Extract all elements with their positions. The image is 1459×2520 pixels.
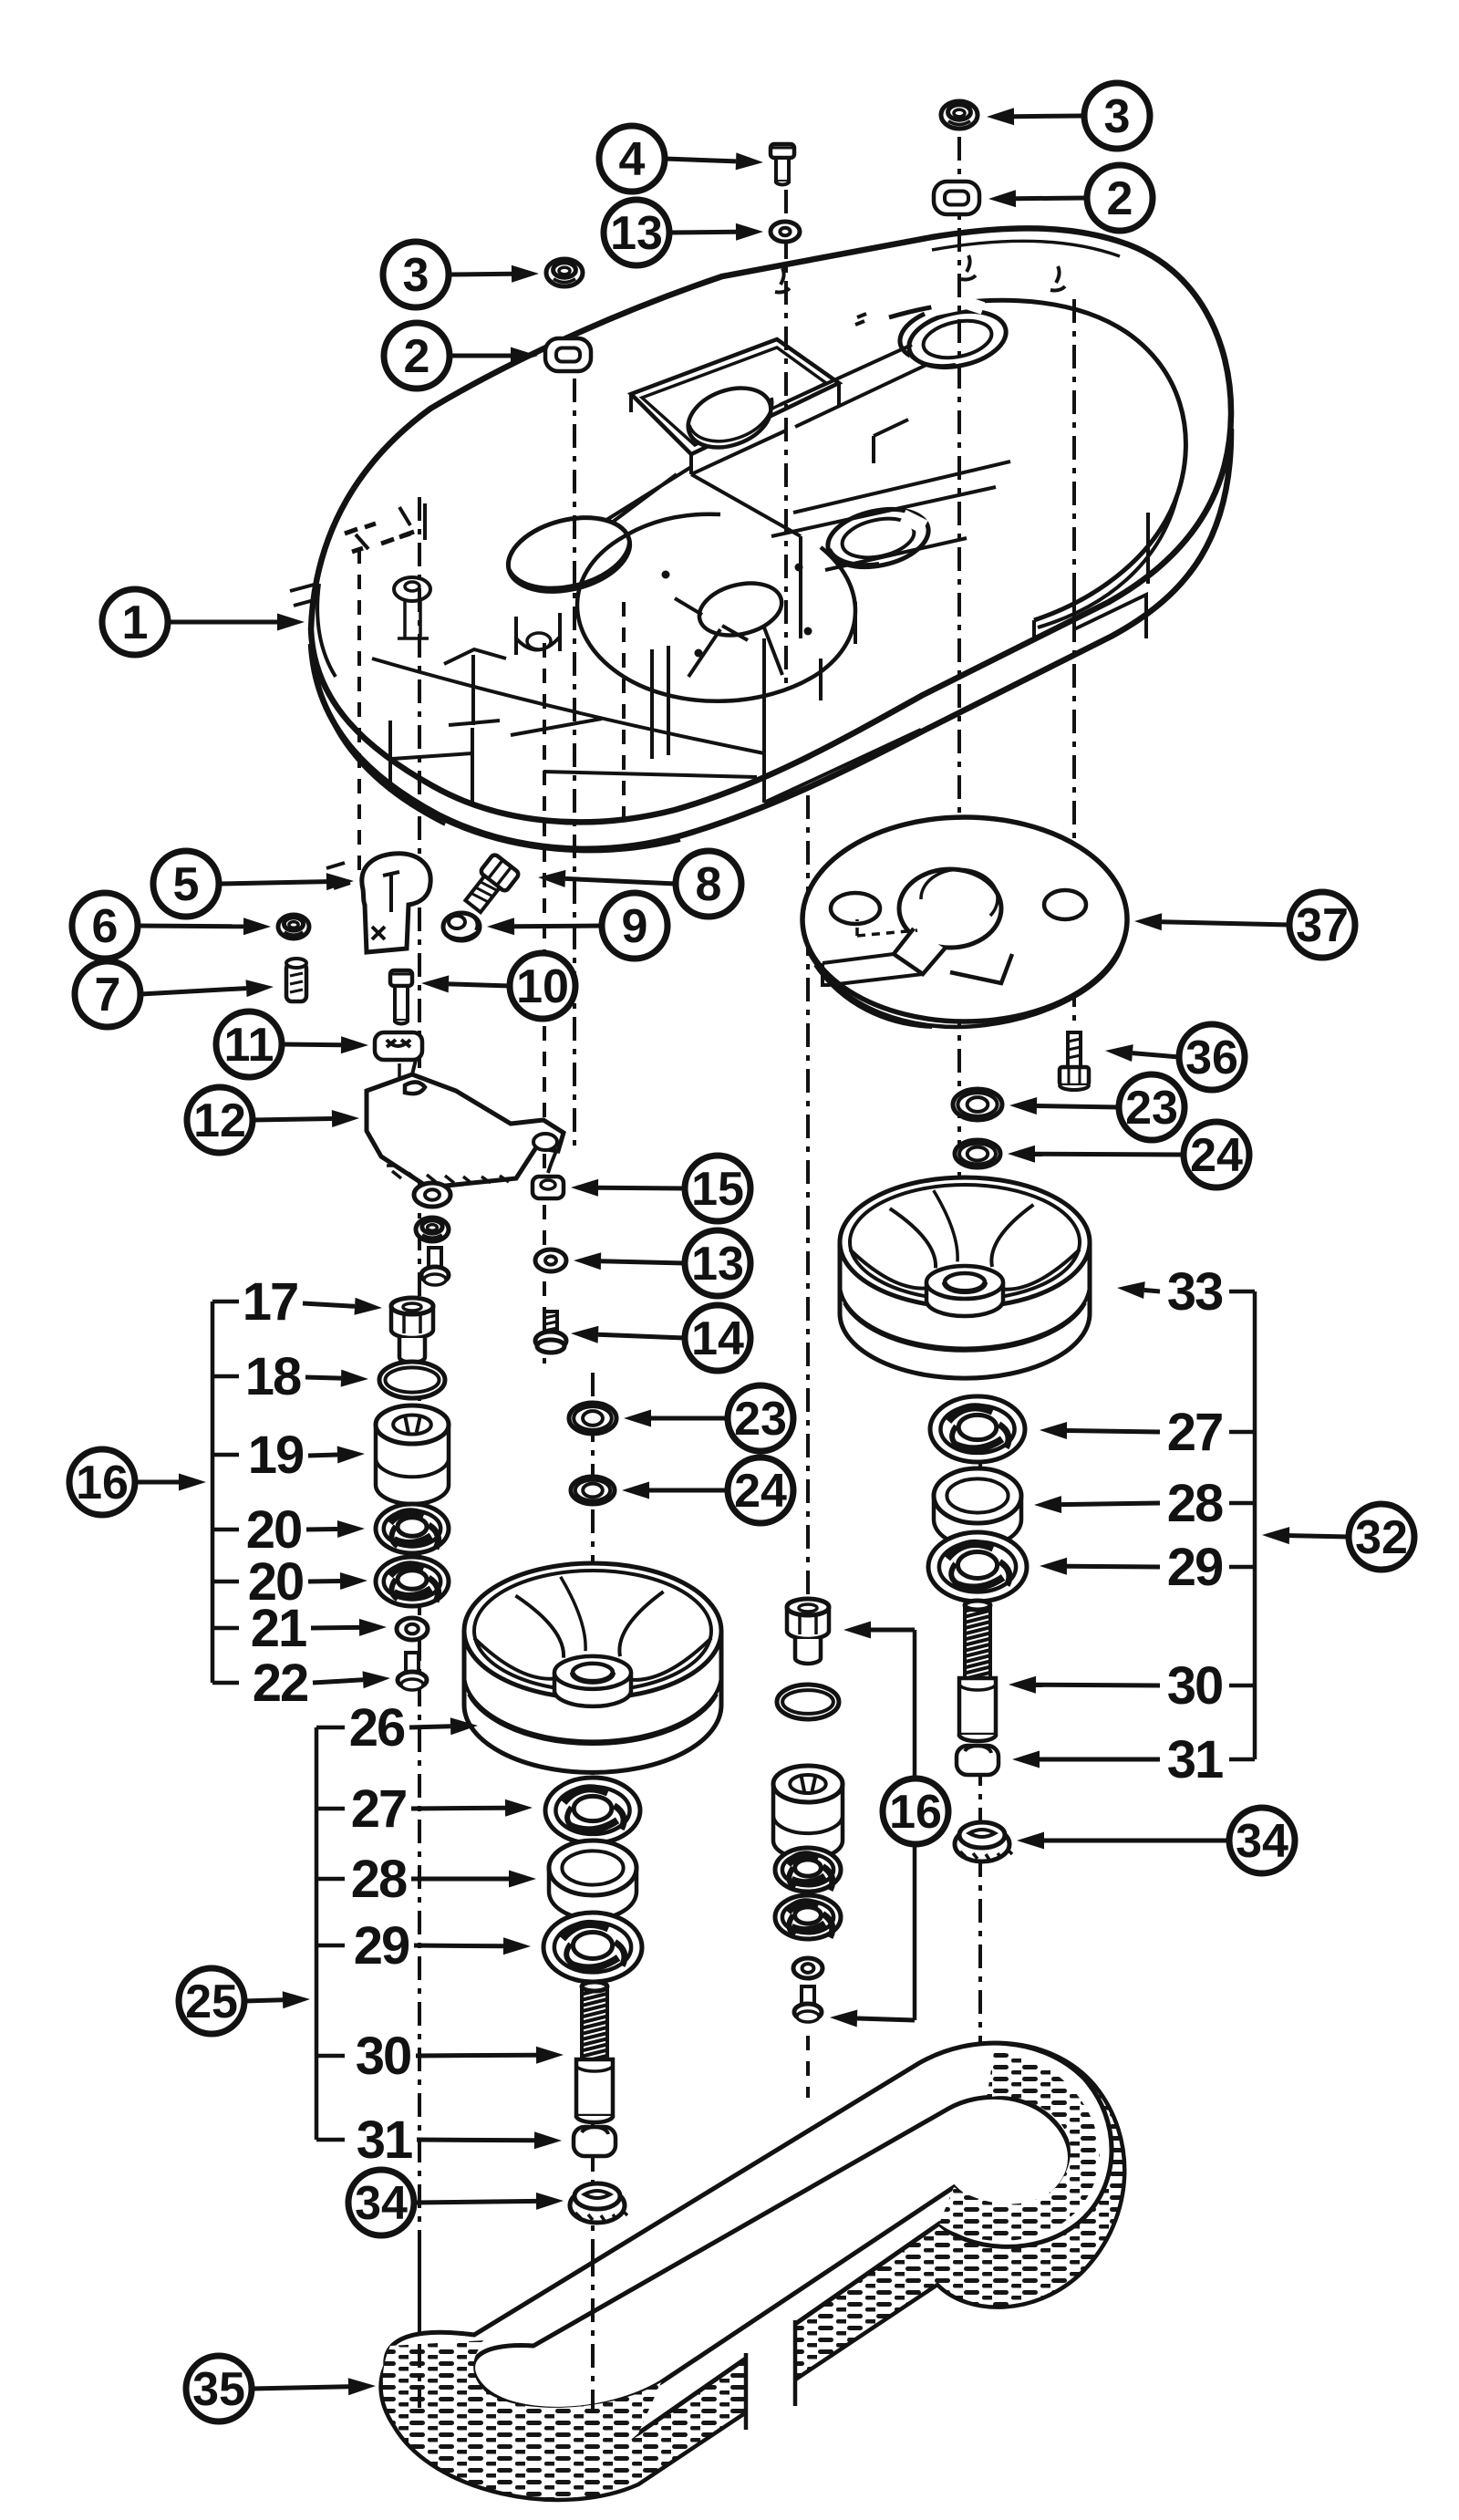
screw centre-right [794, 1986, 822, 2022]
idler pulley (part 26) [464, 1563, 721, 1772]
arrow to washer 24 centre [622, 1482, 728, 1499]
bracket stub [1229, 1501, 1255, 1506]
snap ring (part 18) [379, 1362, 445, 1398]
centreline deck bolt 15/13/14 [543, 643, 546, 1364]
arrow to bearing 27 centre [411, 1799, 533, 1817]
bearing (part 29) right [928, 1532, 1027, 1602]
bearing (part 29) centre [543, 1913, 642, 1982]
svg-text:9: 9 [622, 900, 648, 953]
svg-text:24: 24 [1190, 1129, 1243, 1182]
svg-text:23: 23 [734, 1393, 787, 1446]
svg-text:2: 2 [404, 330, 430, 383]
arrow to locknut 34 centre [414, 2193, 564, 2210]
bearing (part 20) upper [376, 1504, 449, 1553]
flanged locknut (part 34) right [955, 1822, 1012, 1861]
spacer centre-right [773, 1766, 843, 1859]
bolt (part 8) [460, 854, 520, 917]
svg-text:3: 3 [1104, 90, 1131, 143]
svg-text:29: 29 [1167, 1538, 1223, 1597]
arrow to race 28 centre [411, 1871, 536, 1888]
callout 12 [187, 1087, 253, 1153]
arrow to nut 3 left [449, 265, 539, 283]
lock washer (part 2) right [934, 181, 979, 214]
svg-text:16: 16 [889, 1786, 942, 1839]
callout 3 [1084, 83, 1150, 149]
callout 24 [1184, 1122, 1249, 1187]
arrow to plate 37 [1134, 913, 1289, 930]
washer under arm [414, 1183, 450, 1207]
callout 13 [604, 200, 669, 265]
svg-text:31: 31 [357, 2110, 412, 2170]
callout 10 [510, 953, 575, 1019]
arrow to shaft 30 centre [416, 2047, 564, 2064]
svg-text:36: 36 [1185, 1032, 1238, 1084]
svg-text:10: 10 [516, 960, 569, 1013]
svg-text:16: 16 [76, 1457, 129, 1509]
arrow to bearing 20 upper [306, 1520, 365, 1538]
bracket stub [1229, 1684, 1255, 1688]
bracket stub [212, 1528, 239, 1532]
bracket stub [316, 1807, 345, 1811]
nut (part 3) left [546, 259, 583, 286]
idler plate (part 37) [802, 817, 1127, 1027]
arrow to bolt 8 [538, 870, 676, 887]
svg-text:32: 32 [1355, 1511, 1408, 1564]
snap ring centre-right [777, 1685, 839, 1719]
callout 23 [728, 1385, 793, 1451]
centreline right spindle [957, 137, 961, 1295]
bracket stub [1229, 1565, 1255, 1570]
centreline idler spindle [418, 497, 421, 2408]
svg-text:17: 17 [243, 1272, 298, 1332]
arrow to nut 6 [138, 918, 271, 935]
bracket stub [212, 1453, 239, 1457]
arrow to nut 15 [571, 1179, 685, 1197]
lug nut (part 9) [443, 913, 480, 940]
svg-text:30: 30 [356, 2027, 411, 2086]
arrow to ring 18 [305, 1370, 368, 1387]
bearing race (part 28) centre [549, 1841, 636, 1919]
housing skirt window [390, 719, 602, 806]
bracket stub [316, 2054, 345, 2059]
group 16 leader vertical [913, 1630, 917, 2020]
bolt 10 axis [398, 1063, 401, 1164]
bracket group 32 vertical [1253, 1291, 1257, 1759]
wing nut (part 11) [375, 1032, 422, 1060]
housing right plateau [771, 300, 1185, 638]
callout 36 [1179, 1024, 1245, 1090]
nut (part 31) right [957, 1746, 999, 1775]
centreline left spindle [573, 379, 576, 1147]
washer (part 21) [397, 1618, 428, 1640]
arrow to washer 24 right [1008, 1146, 1184, 1163]
callout 25 [179, 1968, 244, 2034]
screw (part 36) [1060, 1032, 1089, 1090]
arrow to nut 31 centre [417, 2131, 562, 2149]
bracket stub [316, 1726, 345, 1730]
callout 11 [216, 1011, 282, 1077]
arrow to bearing 29 centre [414, 1937, 531, 1955]
bearing (part 20) lower [376, 1557, 449, 1606]
centreline bolt 4 [784, 190, 788, 691]
washer (part 13) centre [535, 1250, 566, 1271]
centreline right spindle lower [978, 1397, 982, 2182]
washer (part 23) right [953, 1089, 1002, 1120]
callout 5 [153, 851, 219, 917]
washer (part 24) centre [571, 1477, 615, 1504]
bracket stub [316, 1944, 345, 1948]
svg-text:28: 28 [351, 1850, 407, 1909]
housing left spindle opening [501, 506, 637, 604]
nut (part 6) [278, 915, 309, 939]
housing hidden line 2 [622, 602, 626, 825]
arrow to washer 2 left [450, 347, 538, 365]
svg-text:8: 8 [696, 858, 722, 911]
idler arm (part 12) [367, 1060, 564, 1197]
bracket stub [1229, 1430, 1255, 1435]
arrow to bearing 29 right [1040, 1558, 1160, 1575]
arrow to belt 35 [252, 2378, 376, 2395]
svg-text:34: 34 [355, 2177, 408, 2230]
arrow to locknut 34 right [1017, 1832, 1229, 1850]
arrow to nut 9 [487, 918, 602, 935]
arrow to nut 11 [282, 1036, 368, 1053]
svg-text:23: 23 [1125, 1082, 1178, 1135]
housing left details [290, 503, 764, 777]
arrow to bracket 5 [219, 873, 354, 890]
housing centre platform [577, 514, 855, 701]
svg-text:31: 31 [1167, 1730, 1223, 1789]
callout 9 [602, 893, 667, 959]
bracket stub [212, 1374, 239, 1379]
screw (part 22) [398, 1653, 427, 1690]
nut (part 3) right [941, 101, 978, 129]
svg-text:21: 21 [251, 1599, 306, 1658]
svg-text:27: 27 [1167, 1403, 1223, 1462]
arrow to washer 21 [311, 1619, 387, 1636]
callout 23 [1119, 1074, 1185, 1140]
callout 32 [1349, 1504, 1414, 1570]
callout 6 [72, 893, 138, 959]
svg-text:27: 27 [351, 1779, 407, 1839]
spindle shaft (part 30) right [959, 1601, 996, 1741]
hex standoff (part 17) [391, 1298, 433, 1363]
callout 34 [348, 2170, 414, 2235]
arm hook line [548, 1151, 556, 1173]
arrow to arm 12 [253, 1110, 359, 1127]
arrow to nut 3 right [987, 108, 1084, 125]
centreline centre spindle over belt [591, 2253, 595, 2421]
bracket stub [212, 1681, 239, 1685]
callout 16 [883, 1779, 948, 1844]
arrow to bearing 27 right [1040, 1422, 1160, 1439]
drive belt (part 35) [381, 2043, 1125, 2500]
svg-text:5: 5 [173, 858, 200, 911]
callout 13 [685, 1230, 750, 1296]
svg-text:29: 29 [354, 1916, 409, 1976]
centreline idler spindle over belt [418, 2253, 421, 2408]
screw under arm [421, 1248, 449, 1285]
bolt 10 axis end [387, 1164, 412, 1167]
svg-text:33: 33 [1167, 1262, 1223, 1322]
centreline centre spindle [591, 1373, 595, 2419]
callout 2 [384, 323, 450, 389]
square nut (part 15) [533, 1177, 564, 1198]
svg-text:1: 1 [122, 596, 149, 649]
svg-text:19: 19 [248, 1426, 304, 1485]
svg-text:35: 35 [192, 2363, 245, 2416]
svg-text:22: 22 [253, 1654, 308, 1713]
arrow to bearing 20 lower [308, 1572, 367, 1590]
housing lower C opening [823, 501, 934, 576]
svg-text:12: 12 [193, 1094, 246, 1147]
bearing (part 27) centre [545, 1778, 640, 1843]
centreline centre-right lower [806, 2036, 810, 2098]
svg-text:26: 26 [349, 1698, 405, 1758]
bearing centre-right upper [775, 1848, 841, 1892]
screw (part 7) [286, 959, 306, 1001]
centreline bolt 36 [1072, 299, 1076, 1027]
svg-text:7: 7 [95, 969, 121, 1021]
callout 15 [685, 1156, 750, 1221]
svg-text:20: 20 [246, 1500, 302, 1560]
spacer (part 19) [376, 1405, 449, 1504]
hex standoff centre-right [787, 1599, 829, 1664]
callout 16 [69, 1449, 135, 1515]
bracket stub [316, 2138, 345, 2142]
arrow from 32 to bracket [1262, 1527, 1349, 1544]
housing cast marks [775, 255, 1065, 325]
housing right spindle opening [900, 303, 1011, 376]
bearing centre-right lower [775, 1895, 841, 1939]
svg-text:3: 3 [403, 249, 429, 302]
bracket stub [212, 1300, 239, 1304]
arrow to washer 23 centre [624, 1410, 728, 1427]
nut (part 31) centre [574, 2127, 616, 2156]
flanged locknut (part 34) centre [570, 2183, 627, 2223]
arrow to pulley 26 [409, 1717, 478, 1735]
idler pulley (part 33) [840, 1177, 1090, 1378]
svg-text:15: 15 [691, 1163, 744, 1216]
svg-text:30: 30 [1167, 1656, 1223, 1716]
arrow to washer 23 right [1009, 1097, 1119, 1115]
svg-text:2: 2 [1107, 172, 1133, 225]
housing recess tray [598, 339, 839, 533]
spindle shaft (part 30) centre [576, 1982, 613, 2122]
bracket stub [212, 1580, 239, 1584]
arrow to bolt 10 [421, 975, 510, 992]
svg-text:4: 4 [619, 133, 646, 186]
arrow to screw 36 [1105, 1044, 1179, 1062]
bearing (part 27) right [930, 1396, 1025, 1462]
arrow to shaft 30 right [1009, 1676, 1160, 1694]
svg-text:25: 25 [185, 1976, 238, 2028]
callout 3 [383, 242, 449, 307]
washer centre-right [793, 1958, 823, 1978]
centreline bracket 5 [357, 549, 361, 874]
callout 34 [1229, 1808, 1295, 1873]
bracket group 25 vertical [315, 1727, 319, 2140]
arrow from 25 to bracket [244, 1991, 310, 2008]
bracket stub [212, 1626, 239, 1631]
arrow to screw 22 [313, 1671, 390, 1688]
arrow to nut 31 right [1012, 1751, 1160, 1768]
callout 4 [599, 126, 665, 192]
bracket stub [1229, 1758, 1255, 1762]
callout 1 [102, 589, 168, 655]
arrow to screw 14 [571, 1326, 685, 1343]
svg-text:13: 13 [610, 207, 663, 260]
svg-text:11: 11 [224, 1019, 274, 1072]
arrow to washer 2 right [988, 190, 1087, 207]
callout 35 [186, 2356, 252, 2421]
nut under arm [416, 1218, 449, 1241]
housing internal ribs [652, 345, 926, 803]
arrow to pulley 33 [1117, 1281, 1160, 1299]
washer (part 13) top [771, 222, 800, 242]
svg-text:34: 34 [1236, 1815, 1288, 1868]
svg-text:13: 13 [691, 1238, 744, 1291]
callout 8 [676, 851, 741, 917]
arrow from 16 to bracket [135, 1474, 206, 1491]
callout 7 [75, 961, 140, 1027]
arrow to standoff centre-right [843, 1622, 915, 1639]
bolt (part 10) [390, 970, 412, 1024]
arrow to spacer 19 [308, 1447, 365, 1464]
svg-text:24: 24 [734, 1465, 787, 1518]
screw (part 14) [535, 1312, 566, 1353]
bracket stub [1229, 1290, 1255, 1294]
bearing race (part 28) right [934, 1468, 1021, 1547]
arrow to screw 7 [140, 980, 274, 997]
callout 14 [685, 1305, 750, 1371]
arrow to screw centre-right [830, 2010, 915, 2027]
arrow to race 28 right [1034, 1496, 1160, 1513]
arrow to standoff 17 [303, 1298, 382, 1315]
bracket stub [316, 1877, 345, 1882]
callout 2 [1087, 165, 1153, 231]
carriage bolt (part 4) [771, 144, 794, 185]
housing cover (part 1) [311, 228, 1231, 851]
callout 24 [728, 1457, 793, 1523]
arrow to housing [168, 614, 305, 631]
lock washer (part 2) left [545, 338, 591, 371]
washer (part 23) centre [569, 1403, 616, 1434]
svg-text:6: 6 [92, 900, 119, 953]
arrow to bolt 4 [665, 152, 763, 170]
svg-text:14: 14 [691, 1312, 744, 1365]
callout 37 [1289, 892, 1355, 958]
centreline centre-right spindle [806, 795, 810, 1616]
arrow to washer 13 top [669, 223, 763, 241]
bracket group 16 vertical [211, 1301, 215, 1683]
svg-text:28: 28 [1167, 1474, 1223, 1533]
washer (part 24) right [955, 1140, 1000, 1167]
svg-text:18: 18 [245, 1347, 301, 1406]
idler bracket (part 5) [326, 854, 430, 952]
arrow to washer 13 centre [574, 1252, 685, 1270]
svg-text:37: 37 [1296, 899, 1349, 952]
